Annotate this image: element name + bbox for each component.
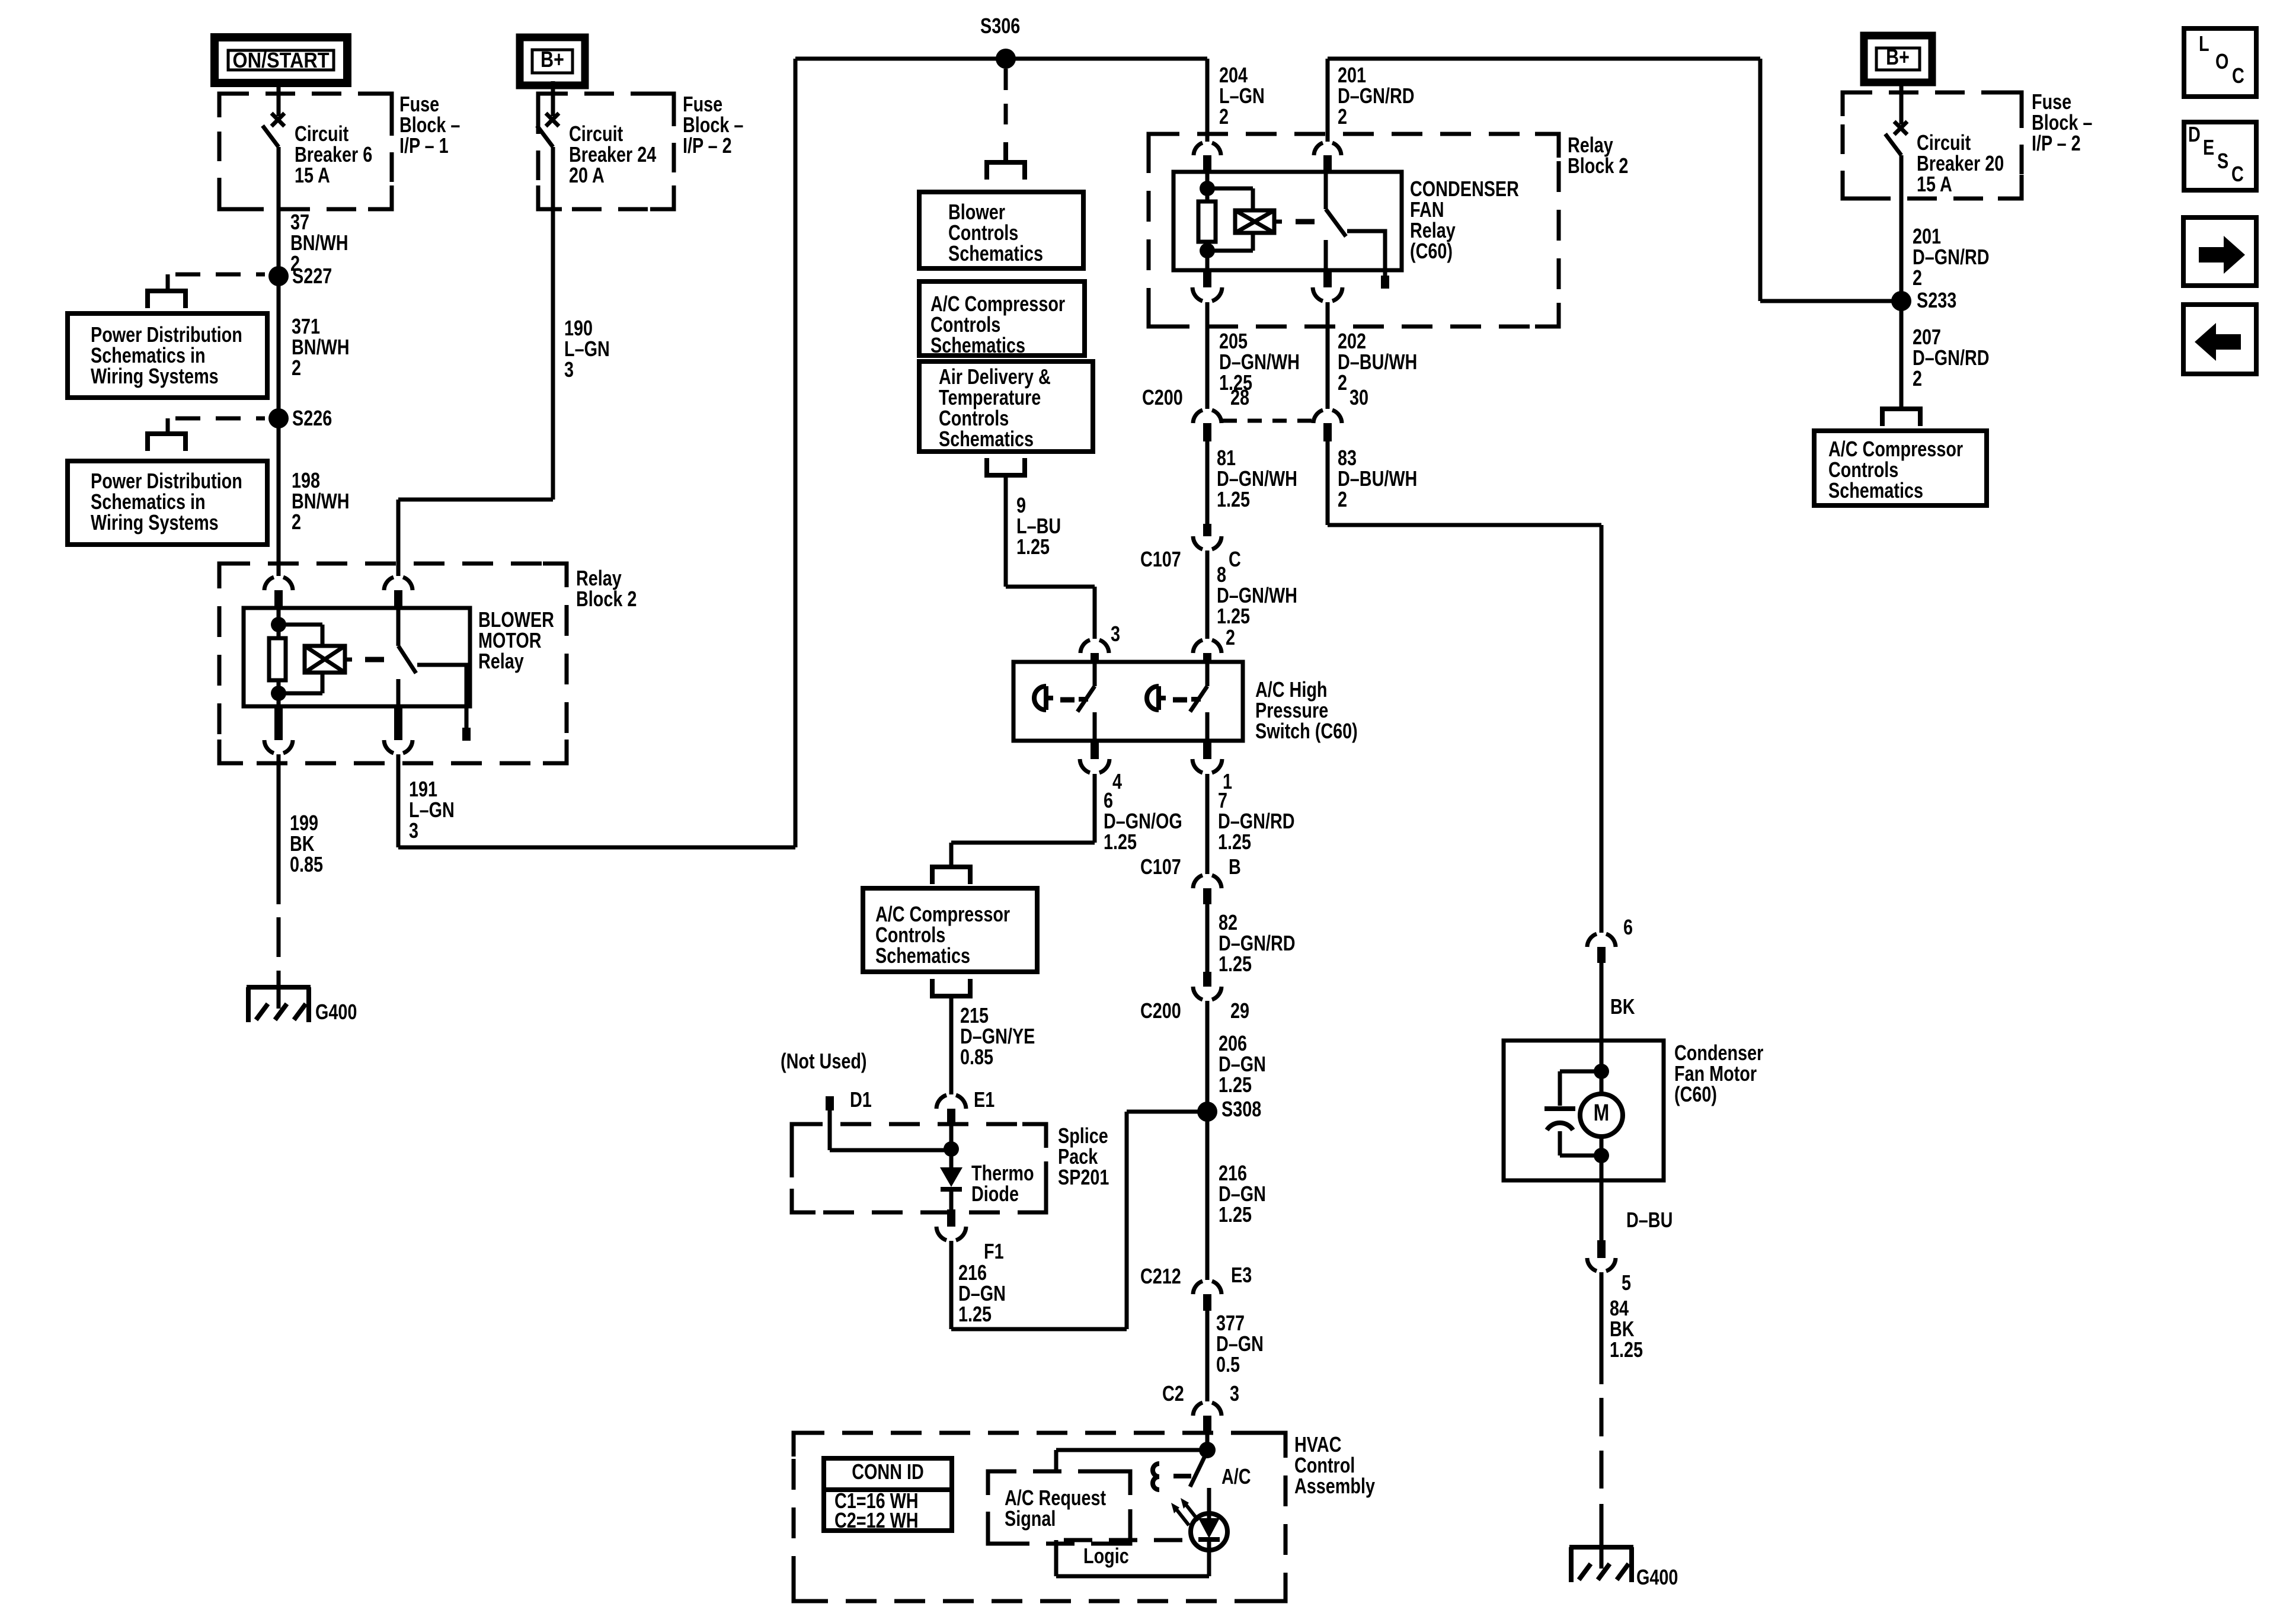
splice pack SP201 dashed box <box>792 1124 1046 1212</box>
svg-text:Diode: Diode <box>971 1182 1019 1206</box>
svg-text:C107: C107 <box>1140 854 1181 879</box>
resistor blower relay coil suppressor <box>277 608 281 638</box>
box Air Delivery and Temperature Controls Schematics <box>919 361 1093 452</box>
svg-text:I/P – 2: I/P – 2 <box>2032 131 2081 155</box>
svg-text:0.85: 0.85 <box>960 1045 993 1069</box>
node S227 splice <box>268 266 289 286</box>
branch bracket above a/c compressor controls box right <box>1882 409 1920 426</box>
wire into HVAC control assembly <box>1205 1432 1210 1450</box>
wire 216 D-GN from S308 to C212 <box>1205 1112 1210 1280</box>
wire 201 branch to condenser relay <box>1760 299 1901 303</box>
node S306 splice <box>996 49 1016 69</box>
connector arc blower relay bottom-right pin <box>394 706 402 740</box>
svg-text:Signal: Signal <box>1005 1506 1056 1531</box>
wire 6 D-GN/OG from pin 4 to a/c compressor controls box <box>1093 774 1097 843</box>
wire 82 D-GN/RD from C107 to C200 <box>1205 904 1210 972</box>
svg-text:S308: S308 <box>1221 1097 1261 1121</box>
node S308 splice <box>1197 1102 1217 1122</box>
svg-text:Switch (C60): Switch (C60) <box>1255 719 1358 743</box>
pressure switch element left <box>1034 686 1046 710</box>
wire 204 L-GN drop to condenser fan relay <box>1205 59 1210 142</box>
box A/C Compressor Controls Schematics middle <box>919 281 1085 356</box>
A/C request signal dashed box <box>988 1471 1130 1544</box>
node motor bottom junction <box>1594 1148 1609 1163</box>
wire 37 BN/WH from CB6 down through S227 S226 to blower relay <box>277 147 281 576</box>
connector arc condenser relay bottom-right pin <box>1323 270 1332 287</box>
reference icon LOC box <box>2184 28 2256 97</box>
A/C high pressure switch body <box>1013 662 1243 741</box>
wire dashed to ground right <box>1600 1398 1604 1436</box>
svg-text:(C60): (C60) <box>1410 239 1453 263</box>
connector C200 dashed tie <box>1223 419 1312 423</box>
svg-text:4: 4 <box>1112 769 1122 793</box>
svg-text:D–GN/RD: D–GN/RD <box>1338 84 1415 108</box>
svg-text:29: 29 <box>1230 998 1249 1023</box>
svg-text:Logic: Logic <box>1083 1544 1129 1568</box>
svg-text:D–BU/WH: D–BU/WH <box>1338 466 1417 491</box>
relay block 2 dashed box blower <box>219 564 567 763</box>
condenser fan motor body <box>1504 1041 1664 1180</box>
fuse block I/P-2 dashed box right <box>1843 92 2022 199</box>
svg-text:S226: S226 <box>292 406 332 430</box>
wire 84 BK to ground <box>1600 1272 1604 1384</box>
svg-text:CONN ID: CONN ID <box>852 1459 924 1484</box>
wire 201 D-GN/RD drop to condenser fan relay <box>1326 59 1330 142</box>
svg-text:2: 2 <box>1219 104 1229 129</box>
relay block 2 dashed box condenser <box>1149 134 1559 327</box>
connector C200 pin 29 <box>1203 972 1211 987</box>
connector arc pressure switch pin 3 <box>1080 640 1109 653</box>
svg-text:E3: E3 <box>1231 1263 1252 1287</box>
wire S306 bus <box>795 57 1207 61</box>
svg-text:C200: C200 <box>1140 998 1181 1023</box>
svg-text:Wiring Systems: Wiring Systems <box>91 510 219 534</box>
svg-text:C212: C212 <box>1140 1264 1181 1288</box>
svg-text:1.25: 1.25 <box>1217 604 1250 628</box>
power feed label B+ left <box>520 37 585 85</box>
connector arc condenser relay top-left pin <box>1194 143 1221 155</box>
wire E1 to junction <box>949 1125 954 1150</box>
HVAC control assembly dashed box <box>794 1433 1285 1601</box>
svg-text:6: 6 <box>1623 915 1633 939</box>
svg-text:D: D <box>2188 122 2201 146</box>
wire 377 D-GN from C212 to C2 <box>1205 1311 1210 1401</box>
wire dashed drop from S306 <box>1004 69 1008 90</box>
svg-text:15 A: 15 A <box>1917 172 1952 196</box>
svg-text:1.25: 1.25 <box>1219 1073 1252 1097</box>
connector C107 pin B <box>1193 875 1221 888</box>
connector C200 pin 28 <box>1193 410 1221 423</box>
ground G400 right <box>1569 1547 1633 1582</box>
power feed label ON/START <box>215 37 347 83</box>
wire 216 D-GN from F1 to S308 <box>949 1241 954 1329</box>
svg-text:BK: BK <box>1610 994 1635 1019</box>
connector arc blower relay bottom-left pin <box>274 706 283 740</box>
svg-text:1.25: 1.25 <box>1218 830 1251 854</box>
svg-text:F1: F1 <box>984 1239 1004 1263</box>
branch bracket below air delivery box <box>987 458 1025 475</box>
reference icon arrow right box <box>2183 217 2256 286</box>
branch bracket below a/c compressor controls box lower <box>932 979 970 996</box>
power feed label B+ right <box>1864 36 1932 82</box>
stub D1 not used <box>826 1096 834 1110</box>
svg-text:C107: C107 <box>1140 547 1181 571</box>
svg-text:D–BU: D–BU <box>1626 1208 1673 1232</box>
svg-text:1.25: 1.25 <box>1610 1337 1643 1362</box>
fuse block I/P-2 dashed box left <box>538 94 674 209</box>
motor M <box>1580 1094 1623 1137</box>
svg-text:C: C <box>2231 162 2244 186</box>
node motor top junction <box>1594 1064 1609 1079</box>
circuit breaker CB24 Circuit Breaker 24 20 A <box>551 81 555 116</box>
svg-text:B+: B+ <box>1886 45 1910 70</box>
svg-text:D–BU/WH: D–BU/WH <box>1338 350 1417 374</box>
wire D1 branch to diode junction <box>830 1148 951 1153</box>
svg-text:2: 2 <box>1913 366 1922 391</box>
wire branch to a/c request signal <box>1056 1448 1207 1452</box>
connector C2 pin 3 <box>1193 1403 1221 1416</box>
svg-text:I/P – 1: I/P – 1 <box>399 133 449 158</box>
relay switch blade blower <box>396 608 401 646</box>
svg-text:2: 2 <box>1338 487 1347 511</box>
pressure switch element right <box>1147 686 1159 710</box>
branch bracket above a/c compressor controls box lower <box>932 867 970 884</box>
svg-text:(C60): (C60) <box>1674 1082 1717 1106</box>
connector E1 into splice pack <box>936 1095 966 1109</box>
node S226 splice <box>268 408 289 428</box>
svg-text:2: 2 <box>1338 104 1347 129</box>
svg-text:ON/START: ON/START <box>232 49 329 72</box>
branch bracket above power distribution box 2 <box>148 434 186 451</box>
svg-text:M: M <box>1594 1099 1610 1126</box>
svg-text:SP201: SP201 <box>1058 1165 1109 1189</box>
node splice junction <box>944 1141 959 1157</box>
wire 9 L-BU to pressure switch pin 3 <box>1004 478 1008 587</box>
svg-text:0.85: 0.85 <box>290 852 323 876</box>
wire 8 D-GN/WH from C107 to pressure switch <box>1205 550 1210 639</box>
reference icon DESC box <box>2184 122 2256 190</box>
wire 191 L-GN from blower relay to S306 riser <box>396 754 401 847</box>
svg-text:S306: S306 <box>980 14 1020 38</box>
circuit breaker CB6 Circuit Breaker 6 15 A <box>277 79 281 116</box>
connector C200 pin 30 <box>1313 410 1342 423</box>
svg-text:B+: B+ <box>541 47 564 72</box>
wire dashed branch from S227 <box>175 273 265 277</box>
wire dashed branch from S226 <box>175 417 265 421</box>
svg-text:5: 5 <box>1622 1270 1631 1295</box>
svg-text:1.25: 1.25 <box>1016 534 1050 559</box>
svg-text:0.5: 0.5 <box>1216 1352 1240 1377</box>
svg-text:Schematics: Schematics <box>930 333 1025 357</box>
svg-text:2: 2 <box>292 510 301 534</box>
svg-text:(Not Used): (Not Used) <box>781 1049 867 1073</box>
svg-text:Schematics: Schematics <box>948 241 1043 265</box>
svg-text:Assembly: Assembly <box>1294 1474 1375 1498</box>
connector condenser fan motor pin 6 <box>1587 934 1616 947</box>
condenser fan relay body <box>1173 172 1402 270</box>
wire 202 down to C200-30 <box>1326 302 1330 409</box>
connector arc blower relay top-left pin <box>264 577 293 590</box>
relay switch blade condenser <box>1324 172 1328 209</box>
wire 207 D-GN/RD from S233 to a/c compressor controls <box>1900 301 1904 406</box>
svg-text:2: 2 <box>292 356 301 380</box>
svg-text:O: O <box>2215 49 2228 73</box>
box A/C Compressor Controls Schematics right <box>1814 431 1987 505</box>
svg-text:D–GN/RD: D–GN/RD <box>1913 245 1990 269</box>
A/C switch fixed contact <box>1153 1464 1159 1490</box>
wire 7 D-GN/RD from pin 1 to C107-B <box>1205 774 1210 874</box>
svg-text:Wiring Systems: Wiring Systems <box>91 364 219 388</box>
svg-text:C2=12 WH: C2=12 WH <box>834 1508 919 1532</box>
connector arc pressure switch pin 2 <box>1193 640 1221 653</box>
svg-text:30: 30 <box>1350 385 1368 409</box>
connector arc condenser relay top-right pin <box>1314 143 1341 155</box>
ground G400 left <box>247 987 311 1022</box>
svg-text:C200: C200 <box>1142 385 1183 409</box>
box Power Distribution Schematics in Wiring Systems 2 <box>68 461 267 545</box>
box Blower Controls Schematics <box>919 192 1083 268</box>
connector C107 pin C <box>1203 524 1211 536</box>
svg-text:Schematics: Schematics <box>939 427 1034 451</box>
svg-text:S227: S227 <box>292 264 332 288</box>
svg-text:3: 3 <box>1230 1381 1239 1406</box>
reference icon arrow left box <box>2183 305 2256 374</box>
svg-text:Schematics: Schematics <box>875 943 970 968</box>
svg-text:A/C: A/C <box>1221 1464 1251 1489</box>
svg-text:C: C <box>2232 63 2244 88</box>
wire 215 D-GN/YE to splice pack E1 <box>949 998 954 1094</box>
LED indicator arrows <box>1185 1504 1198 1521</box>
svg-text:2: 2 <box>1913 265 1922 290</box>
svg-text:3: 3 <box>409 818 418 843</box>
box Power Distribution Schematics in Wiring Systems 1 <box>68 313 267 398</box>
relay coil winding blower <box>279 623 322 627</box>
svg-text:1.25: 1.25 <box>1219 1202 1252 1227</box>
fuse block I/P-1 dashed box <box>219 94 392 209</box>
wire 199 BK from blower relay to ground <box>277 754 281 904</box>
svg-text:1.25: 1.25 <box>1104 830 1137 854</box>
svg-text:3: 3 <box>1111 622 1120 646</box>
svg-text:1.25: 1.25 <box>1219 952 1252 976</box>
A/C switch blade <box>1190 1451 1207 1487</box>
wire dashed to ground left <box>277 917 281 957</box>
connector condenser fan motor pin 5 <box>1597 1240 1606 1258</box>
svg-text:I/P – 2: I/P – 2 <box>683 133 732 158</box>
svg-text:E1: E1 <box>974 1087 994 1112</box>
svg-text:1.25: 1.25 <box>1217 487 1250 511</box>
svg-text:C: C <box>1229 547 1241 571</box>
connector arc blower relay top-right pin <box>384 577 412 590</box>
thermo diode <box>949 1150 954 1167</box>
svg-text:G400: G400 <box>1636 1565 1678 1589</box>
blower motor relay body <box>244 608 470 706</box>
relay coil winding condenser <box>1207 187 1253 191</box>
connector F1 below splice pack <box>947 1209 955 1227</box>
connector arc condenser relay bottom-left pin <box>1203 270 1211 287</box>
relay unused contact stub condenser <box>1347 231 1385 277</box>
svg-text:C2: C2 <box>1162 1381 1184 1406</box>
wire 202 to condenser fan motor <box>1326 441 1330 525</box>
coil-to-contact dashed link <box>345 658 352 662</box>
svg-text:E: E <box>2203 135 2214 159</box>
svg-text:3: 3 <box>564 357 574 382</box>
node A/C switch junction <box>1199 1442 1216 1458</box>
node coil bottom junction <box>271 686 286 701</box>
coil-to-contact dashed link condenser <box>1274 220 1282 224</box>
svg-text:G400: G400 <box>315 1000 357 1024</box>
svg-text:1.25: 1.25 <box>958 1302 992 1326</box>
relay unused contact stub blower <box>417 665 466 729</box>
node coil top junction <box>271 617 286 632</box>
wire 190 L-GN from CB24 to blower relay switch pin <box>551 147 555 500</box>
svg-text:L: L <box>2199 31 2209 56</box>
wire 206 D-GN from C200 to S308 <box>1205 1001 1210 1112</box>
svg-text:Block 2: Block 2 <box>576 587 637 611</box>
svg-text:B: B <box>1229 854 1241 879</box>
svg-text:Relay: Relay <box>478 649 524 673</box>
wire 201 D-GN/RD from CB20 to S233 and relay <box>1900 155 1904 301</box>
node S233 splice <box>1891 291 1911 311</box>
connector arc pressure switch pin 4 <box>1091 741 1099 759</box>
wire D-BU from motor <box>1600 1137 1604 1240</box>
branch bracket above power distribution box 1 <box>148 291 186 308</box>
svg-text:28: 28 <box>1230 385 1249 409</box>
svg-text:D–GN/RD: D–GN/RD <box>1913 345 1990 370</box>
svg-text:S: S <box>2217 149 2228 173</box>
svg-text:2: 2 <box>1226 625 1235 649</box>
wire BK into motor <box>1600 963 1604 1094</box>
svg-text:Block 2: Block 2 <box>1568 153 1628 178</box>
svg-text:15 A: 15 A <box>295 163 330 187</box>
capacitor in motor <box>1560 1070 1601 1074</box>
svg-text:S233: S233 <box>1917 288 1956 312</box>
logic box <box>1064 1538 1191 1542</box>
svg-text:2: 2 <box>1338 370 1347 395</box>
svg-text:20 A: 20 A <box>569 163 605 187</box>
connector arc pressure switch pin 1 <box>1203 741 1211 759</box>
wire 81 D-GN/WH from C200 to C107 <box>1205 441 1210 525</box>
branch bracket above blower controls box <box>987 162 1025 180</box>
resistor condenser relay coil suppressor <box>1205 172 1210 201</box>
circuit breaker CB20 Circuit Breaker 20 15 A <box>1900 79 1904 124</box>
CONN ID table <box>824 1458 952 1531</box>
LED indicator lamp <box>1207 1488 1211 1518</box>
node coil junction bottom <box>1200 243 1215 258</box>
node coil junction top <box>1200 181 1215 196</box>
svg-text:D1: D1 <box>850 1087 872 1112</box>
wire 205 down to C200-28 <box>1205 302 1210 409</box>
connector C212 pin E3 <box>1193 1281 1221 1294</box>
svg-text:Schematics: Schematics <box>1828 478 1923 502</box>
box A/C Compressor Controls Schematics lower <box>863 888 1037 972</box>
